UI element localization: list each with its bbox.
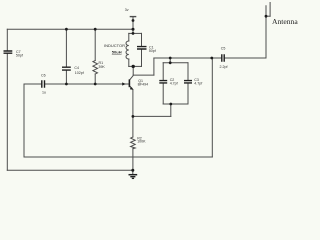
- svg-text:3v: 3v: [125, 8, 129, 12]
- svg-text:C6: C6: [41, 74, 46, 78]
- svg-text:39K: 39K: [98, 65, 105, 69]
- svg-text:1u: 1u: [42, 90, 46, 94]
- svg-text:BF494: BF494: [138, 82, 149, 86]
- svg-text:Antenna: Antenna: [272, 17, 298, 26]
- svg-text:50pf: 50pf: [149, 49, 156, 53]
- svg-text:50uH: 50uH: [112, 49, 122, 54]
- svg-text:100K: 100K: [137, 140, 146, 144]
- svg-text:INDUCTOR: INDUCTOR: [104, 43, 125, 48]
- svg-text:2.2pf: 2.2pf: [220, 65, 228, 69]
- svg-text:4.7pf: 4.7pf: [194, 82, 202, 86]
- svg-text:4.7pf: 4.7pf: [170, 82, 178, 86]
- svg-text:102pf: 102pf: [75, 71, 84, 75]
- svg-text:C4: C4: [74, 66, 79, 70]
- svg-text:50pf: 50pf: [16, 54, 23, 58]
- svg-text:C5: C5: [221, 47, 226, 51]
